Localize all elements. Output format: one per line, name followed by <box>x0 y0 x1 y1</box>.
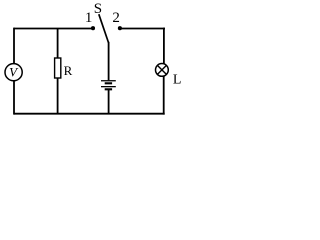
battery cell 1 negative plate (short thick) <box>105 82 112 84</box>
switch S blade <box>99 14 109 42</box>
switch S terminal 2 <box>118 26 122 30</box>
wire resistor branch lower <box>57 78 59 114</box>
switch S terminal 1 <box>91 26 95 30</box>
wire resistor branch upper <box>57 29 59 59</box>
lamp L <box>156 64 169 77</box>
wire left upper (top node to voltmeter) <box>13 28 15 64</box>
wire switch blade to battery <box>108 42 110 81</box>
svg-text:S: S <box>94 1 102 17</box>
wire battery to bottom node <box>108 89 110 113</box>
svg-text:1: 1 <box>85 10 93 26</box>
wire top-right segment <box>120 28 165 30</box>
wire top-left segment <box>14 28 93 30</box>
wire right lower (lamp to bottom node) <box>163 76 165 115</box>
svg-text:L: L <box>173 72 182 87</box>
voltmeter V <box>5 64 22 81</box>
wire right upper (top node to lamp) <box>163 28 165 65</box>
svg-text:R: R <box>64 63 73 78</box>
battery cell 2 positive plate (long) <box>101 86 116 88</box>
battery cell 2 negative plate (short thick) <box>105 88 112 90</box>
wire bottom segment <box>14 113 165 115</box>
battery cell 1 positive plate (long) <box>101 80 116 82</box>
svg-text:2: 2 <box>112 10 120 26</box>
resistor R <box>55 58 61 78</box>
wire left lower (voltmeter to bottom node) <box>13 81 15 115</box>
